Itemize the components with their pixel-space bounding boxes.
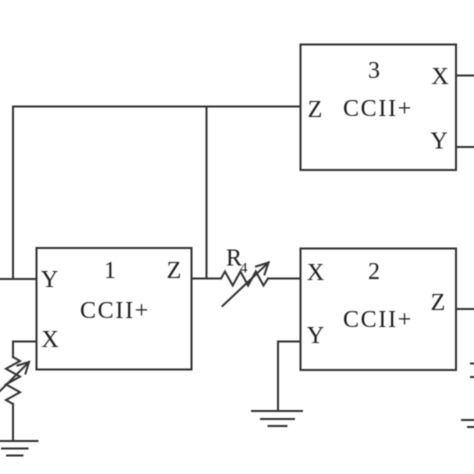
- wire R4 to X2: [268, 278, 301, 280]
- ground GND1: [0, 440, 38, 442]
- svg-text:Y: Y: [430, 129, 447, 155]
- ground GND3 partial at right edge: [462, 419, 474, 421]
- wire feedback left vertical: [12, 107, 14, 280]
- svg-text:Z: Z: [167, 258, 182, 284]
- capacitor C1 partial at right edge: [471, 363, 474, 365]
- svg-text:X: X: [307, 260, 324, 286]
- resistor R4 zigzag: [221, 272, 268, 286]
- wire X1 horizontal: [13, 341, 37, 343]
- svg-text:2: 2: [368, 259, 380, 285]
- wire Y2 down to ground: [277, 342, 279, 412]
- wire X3 output: [456, 75, 474, 77]
- ground GND2: [252, 410, 302, 412]
- svg-text:X: X: [41, 327, 58, 353]
- op-amp U2 (CCII+ block 2 box): [301, 249, 457, 371]
- resistor R4 arrow: [223, 263, 269, 307]
- svg-text:CCII+: CCII+: [343, 96, 413, 122]
- op-amp U3 (CCII+ block 3 box): [301, 45, 457, 171]
- svg-text:3: 3: [368, 58, 380, 84]
- wire X1 down to R1: [12, 342, 14, 358]
- svg-text:Y: Y: [41, 267, 58, 293]
- svg-text:4: 4: [240, 261, 248, 277]
- wire Y3 output: [456, 146, 474, 148]
- svg-text:Z: Z: [308, 97, 323, 123]
- wire feedback top horizontal: [13, 106, 301, 108]
- wire Y2 horizontal: [278, 341, 301, 343]
- svg-text:1: 1: [104, 258, 116, 284]
- svg-text:CCII+: CCII+: [343, 307, 413, 333]
- resistor R1 arrow: [0, 362, 29, 391]
- wire Z2 output: [456, 308, 474, 310]
- op-amp U1 (CCII+ block 1 box): [37, 248, 192, 370]
- svg-text:X: X: [431, 64, 448, 90]
- wire input to Y1: [0, 278, 37, 280]
- resistor R1 zigzag vertical: [6, 357, 20, 404]
- svg-text:CCII+: CCII+: [80, 298, 150, 324]
- wire Z1 to R4: [192, 278, 222, 280]
- wire R1 to ground: [12, 404, 14, 441]
- svg-text:Z: Z: [431, 290, 446, 316]
- svg-text:Y: Y: [307, 323, 324, 349]
- wire junction vertical at node A: [206, 107, 208, 279]
